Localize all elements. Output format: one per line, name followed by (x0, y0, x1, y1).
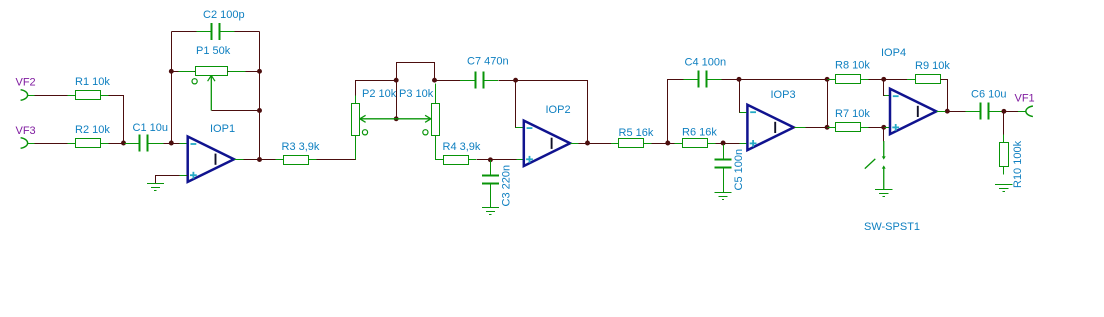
svg-text:SW-SPST1: SW-SPST1 (864, 221, 920, 233)
wire R5 to R6 (652, 143, 676, 145)
wire R6 to IOP3 + input (716, 143, 748, 145)
wire lead P3 bottom (435, 136, 437, 160)
wire P2 top lead (356, 81, 397, 104)
ground R10 (995, 185, 1012, 192)
wire C2 to right vertical (235, 31, 260, 33)
wire to IOP2 inverting input (516, 81, 524, 128)
svg-text:P2 10k: P2 10k (362, 88, 397, 100)
terminal VF3 (21, 138, 28, 149)
svg-text:IOP1: IOP1 (210, 123, 235, 135)
wire lead IOP1 + input (180, 175, 187, 177)
resistor R7 (827, 123, 868, 132)
terminal VF1 (1026, 106, 1033, 117)
wire R3 to P2 bottom (317, 136, 356, 160)
svg-text:R7 10k: R7 10k (835, 108, 870, 120)
junction IOP4 output (945, 109, 950, 114)
svg-text:R3 3,9k: R3 3,9k (282, 141, 320, 153)
svg-text:C3 220n: C3 220n (501, 165, 513, 207)
wire IOP1 + input to ground (156, 176, 188, 184)
resistor R6 (674, 139, 715, 148)
op-amp IOP1 (188, 137, 234, 182)
op-amp IOP2 (524, 121, 570, 166)
ground C3 (482, 208, 499, 215)
resistor R5 (611, 139, 652, 148)
junction C5 node (721, 141, 726, 146)
wire lead IOP1 - input (180, 143, 187, 145)
wire lead IOP4 - input (885, 95, 889, 97)
wire P1 right lead (228, 71, 260, 73)
wire C4 branch up (668, 80, 684, 144)
wire VF2 to R1 (35, 95, 68, 97)
P3 wiper arrow (396, 115, 431, 122)
P2 sense circle (362, 130, 367, 135)
capacitor C3 (482, 160, 499, 208)
wire lead IOP1 output (235, 159, 244, 161)
wire lead IOP4 + input (885, 127, 889, 129)
svg-text:C6 10u: C6 10u (971, 89, 1006, 101)
wire lead IOP2 - input (516, 127, 523, 129)
wire C1 to IOP1 inverting input (163, 143, 187, 145)
ground SW-SPST1 (875, 190, 892, 197)
capacitor C2 (197, 23, 235, 40)
wire lead P2 top (355, 96, 357, 104)
junction P2 top node (394, 78, 399, 83)
junction IOP3 output (825, 125, 830, 130)
svg-text:C4 100n: C4 100n (685, 57, 727, 69)
wire lead IOP3 + input (740, 143, 747, 145)
wire C4 to IOP3 - node (722, 79, 740, 81)
svg-text:IOP4: IOP4 (881, 47, 906, 59)
wire lead P1 left (179, 71, 195, 73)
junction IOP4 + node (881, 125, 886, 130)
svg-text:VF3: VF3 (16, 125, 36, 137)
svg-text:R10 100k: R10 100k (1012, 140, 1024, 188)
op-amp IOP3 (747, 105, 793, 150)
junction output node (1001, 109, 1006, 114)
potentiometer P3 (432, 104, 440, 136)
capacitor C1 (124, 135, 162, 152)
resistor R4 (435, 156, 476, 165)
wire R1 to node A (109, 96, 124, 141)
wire lead IOP3 - input (740, 112, 747, 114)
wire R8 left vertical (827, 80, 829, 128)
wire IOP4 output (937, 111, 967, 113)
svg-text:P1 50k: P1 50k (196, 45, 231, 57)
resistor R2 (68, 139, 109, 148)
junction IOP2 output (585, 141, 590, 146)
svg-text:VF2: VF2 (16, 77, 36, 89)
svg-text:C2 100p: C2 100p (203, 9, 245, 21)
wire feedback left vertical (171, 32, 173, 144)
resistor R3 (276, 156, 317, 165)
wire IOP2 output (571, 143, 612, 145)
wire to IOP3 inverting input (740, 80, 748, 113)
svg-text:R2 10k: R2 10k (75, 124, 110, 136)
junction IOP3 - node (737, 77, 742, 82)
svg-text:R9 10k: R9 10k (915, 60, 950, 72)
junction P1 wiper (257, 108, 262, 113)
wire P3 bottom to R4 (435, 136, 437, 160)
wire C7 to IOP2 feedback node (499, 80, 516, 82)
wire IOP3 output (794, 127, 832, 129)
capacitor C4 (683, 71, 721, 88)
resistor R1 (68, 91, 109, 100)
wire lead IOP2 + input (517, 159, 523, 161)
wire IOP3 - node to R8 (740, 79, 828, 81)
junction node A (121, 141, 126, 146)
wire lead P3 top (435, 84, 437, 104)
ground IOP1 + (147, 184, 164, 191)
junction C7 right (513, 78, 518, 83)
wire P1 wiper to right vertical (212, 110, 260, 112)
junction R5-R6 node (665, 141, 670, 146)
wire lead IOP3 output (795, 127, 806, 129)
wire top feedback to C2 (172, 31, 197, 33)
capacitor C7 (460, 72, 498, 89)
junction node B (IOP1 -) (169, 141, 174, 146)
resistor R8 (827, 75, 868, 84)
svg-text:C7 470n: C7 470n (467, 56, 509, 68)
junction R8 left (825, 77, 830, 82)
junction P1 right (257, 69, 262, 74)
wire R2 to C1 (109, 143, 136, 145)
resistor R10 (1000, 135, 1009, 175)
potentiometer P1 (196, 67, 228, 76)
wire feedback right vertical (259, 32, 261, 160)
junction C3 node (488, 157, 493, 162)
junction P3 top node (432, 78, 437, 83)
capacitor C5 (715, 144, 732, 192)
wire lead IOP4 output (937, 111, 946, 113)
resistor R9 (907, 75, 948, 84)
svg-text:IOP3: IOP3 (771, 89, 796, 101)
svg-text:R4 3,9k: R4 3,9k (443, 141, 481, 153)
switch SW-SPST1 (865, 141, 886, 189)
svg-text:C5 100n: C5 100n (733, 149, 745, 191)
wire output node to R10 (1003, 112, 1005, 136)
wire P1 left lead (172, 71, 196, 73)
svg-text:IOP2: IOP2 (546, 104, 571, 116)
wire lead IOP2 output (571, 143, 579, 145)
wire lead C1 right (152, 143, 164, 145)
wire R4 to IOP2 + input (477, 159, 524, 161)
wire wiper junction vertical (396, 81, 398, 119)
svg-text:C1 10u: C1 10u (133, 122, 168, 134)
svg-text:R6 16k: R6 16k (682, 127, 717, 139)
op-amp IOP4 (890, 89, 936, 134)
capacitor C6 (965, 103, 1003, 120)
junction IOP1 output (257, 157, 262, 162)
wire C6 to output node (1004, 111, 1020, 113)
junction IOP4 - node (881, 77, 886, 82)
terminal VF2 (21, 90, 28, 101)
P3 sense circle (423, 130, 428, 135)
switch SW-SPST1 lead from + node (883, 128, 885, 142)
junction P1 left (169, 69, 174, 74)
svg-text:R5 16k: R5 16k (619, 127, 654, 139)
wire P3 top to C7 (435, 80, 461, 82)
wire top bracket P2-P3 (397, 63, 435, 81)
wire R9 top (884, 79, 908, 81)
ground C5 (715, 193, 732, 200)
wire R9 to IOP4 output (941, 80, 948, 112)
wire R7 to IOP4 + input (869, 127, 891, 129)
wire lead P2 bottom (355, 136, 357, 160)
wire R8 to IOP4 - node (869, 79, 884, 81)
P1 sense circle (192, 79, 197, 84)
P2 wiper arrow (360, 115, 396, 122)
wire VF3 to R2 (35, 143, 68, 145)
svg-text:R8 10k: R8 10k (835, 60, 870, 72)
wire feedback over IOP2 (516, 81, 588, 144)
svg-text:VF1: VF1 (1015, 93, 1035, 105)
potentiometer P2 (352, 104, 360, 136)
wire lead P1 right (229, 71, 246, 73)
wire to IOP4 inverting input (884, 80, 891, 96)
svg-text:R1 10k: R1 10k (75, 76, 110, 88)
P1 wiper arrow (208, 75, 215, 110)
svg-text:P3 10k: P3 10k (399, 88, 434, 100)
junction wipers (394, 116, 399, 121)
wire IOP1 output (235, 159, 276, 161)
